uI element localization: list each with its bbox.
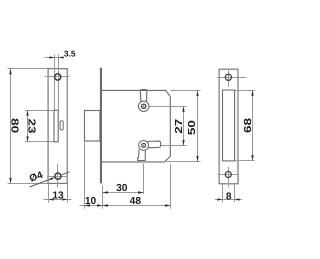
strike top hole — [225, 74, 231, 80]
extension line from case top corner for dim 50 — [170, 90, 200, 92]
dimension line 10 — [80, 205, 103, 207]
dimension line 30 — [103, 192, 144, 194]
dimension line 50 — [197, 90, 199, 161]
strike bottom hole — [225, 172, 231, 178]
dimension line 8 with outside arrows — [215, 199, 242, 201]
bottom hole centerlines — [218, 174, 239, 176]
faceplate edge bar — [100, 68, 102, 184]
strike slot — [223, 90, 235, 161]
deadbolt block — [85, 111, 100, 142]
extension lines for dim 13 — [48, 183, 50, 202]
leader line of label D4 — [30, 178, 54, 187]
small side slot (pill) — [60, 121, 63, 130]
strike plate outline — [219, 69, 238, 184]
svg-text:10: 10 — [85, 196, 97, 207]
svg-text:48: 48 — [130, 196, 142, 207]
extension line from case bottom for dim 50 — [165, 161, 201, 163]
top hole centerline horizontal — [45, 76, 70, 78]
top hole centerlines — [217, 77, 246, 79]
extension lines for dim 8 — [222, 184, 224, 203]
extension line bottom for dim 80 — [8, 183, 49, 185]
svg-text:50: 50 — [187, 120, 198, 135]
bottom follower hub — [139, 141, 149, 151]
svg-text:27: 27 — [174, 118, 185, 133]
bottom lever arm — [147, 141, 161, 148]
extension line from case right corner for dim 48 — [170, 164, 172, 209]
bottom lever leg — [138, 149, 146, 160]
svg-text:30: 30 — [116, 183, 128, 194]
svg-text:23: 23 — [26, 119, 37, 134]
dimension line 68 — [252, 90, 254, 161]
extension line top for dim 23 — [25, 110, 54, 112]
extension lines for dim 68 — [235, 90, 255, 92]
svg-text:80: 80 — [9, 118, 20, 133]
slot (23 tall) — [54, 110, 58, 142]
dimension line 80 — [10, 69, 12, 184]
extension line from faceplate bar for dims 10/48 — [102, 186, 104, 209]
lock case outline with chamfered right corners — [102, 90, 170, 161]
top follower hub — [139, 101, 149, 111]
screw hole top (ring) — [55, 74, 61, 80]
extension line top for dim 80 — [8, 68, 49, 70]
extension line from bottom follower for dim 30 — [143, 164, 145, 195]
extension line from deadbolt face for dim 10 — [84, 141, 86, 209]
svg-text:68: 68 — [243, 118, 254, 133]
svg-text:8: 8 — [226, 191, 232, 202]
extension line from top follower for dim 27 — [149, 106, 187, 108]
dimension line 3.5 with outside arrows — [45, 57, 55, 59]
svg-text:13: 13 — [52, 190, 64, 201]
svg-text:3.5: 3.5 — [64, 49, 76, 59]
screw hole bottom (ring) — [55, 173, 61, 179]
faceplate outline — [48, 69, 67, 184]
extension line bottom for dim 23 — [25, 141, 54, 143]
top follower stem — [140, 90, 147, 102]
bottom hole centerline horizontal — [47, 176, 68, 178]
dimension line 48 — [103, 205, 171, 207]
dimension line 27 — [183, 107, 185, 146]
extension lines for dim 3.5 (slot width) — [54, 55, 56, 111]
dimension line 13 with outside arrows — [44, 199, 72, 201]
dimension line 23 — [27, 110, 29, 142]
bottom hole centerline vertical — [57, 164, 59, 188]
extension line from lever arm for dim 27 — [160, 145, 186, 147]
